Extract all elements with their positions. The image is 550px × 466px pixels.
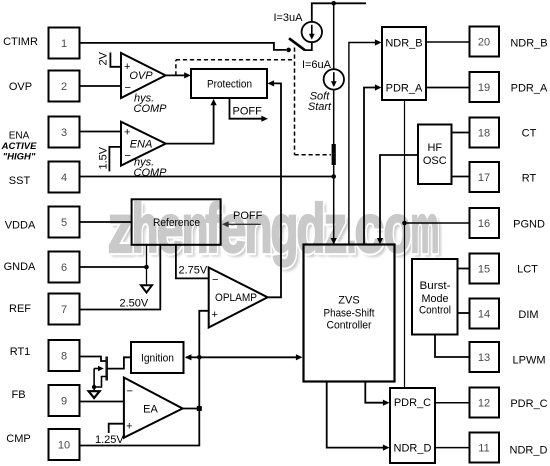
- node EA output junction: [197, 406, 202, 411]
- net label VDDA: [5, 220, 36, 232]
- svg-text:ENA: ENA: [9, 131, 30, 142]
- svg-text:VDDA: VDDA: [5, 220, 36, 232]
- transistor Q2 soft-start discharge bar: [332, 144, 336, 165]
- wire switch to current source I1: [305, 42, 312, 50]
- svg-text:11: 11: [478, 443, 489, 455]
- pin 2 number: [61, 81, 67, 93]
- svg-text:19: 19: [478, 82, 490, 94]
- wire Burst to pin13 LPWM: [435, 335, 470, 358]
- pin 7 box: [49, 294, 80, 325]
- svg-text:HF: HF: [427, 142, 442, 154]
- svg-text:PDR_A: PDR_A: [386, 82, 423, 94]
- wire EA output: [183, 408, 200, 410]
- svg-text:NDR_D: NDR_D: [394, 443, 432, 455]
- pin 20 box: [470, 27, 500, 57]
- svg-text:20: 20: [478, 37, 490, 49]
- svg-text:POFF: POFF: [233, 210, 263, 222]
- block Ignition: [131, 342, 184, 373]
- wire dashed OVP control: [176, 48, 331, 155]
- net label NDR_B right: [510, 38, 547, 50]
- wire HF OSC to pin18 CT: [452, 132, 470, 134]
- svg-text:Reference: Reference: [153, 217, 200, 229]
- svg-text:LPWM: LPWM: [513, 355, 546, 367]
- wire soft-start vertical into ZVS: [331, 90, 337, 245]
- current source I2 6uA: [324, 69, 344, 89]
- svg-text:13: 13: [478, 352, 490, 364]
- wire pin4 SST: [80, 176, 334, 178]
- block ZVS Phase-Shift Controller: [304, 245, 395, 382]
- wire ZVS to NDR_D input: [327, 382, 390, 451]
- svg-text:5: 5: [61, 217, 67, 229]
- pin 1 box: [49, 28, 80, 59]
- pin 1 number: [61, 38, 67, 50]
- svg-text:−: −: [125, 82, 131, 94]
- block Burst-Mode Control: [412, 259, 458, 335]
- svg-text:PGND: PGND: [513, 219, 545, 231]
- net label ENA: [9, 131, 30, 142]
- wire pin7 REF: [80, 245, 160, 310]
- svg-text:"HIGH": "HIGH": [3, 152, 36, 163]
- svg-text:e: e: [219, 190, 247, 267]
- wire ZVS to NDR_B input: [349, 39, 382, 244]
- pin 2 box: [49, 71, 80, 102]
- svg-text:DIM: DIM: [518, 309, 538, 321]
- reference 2V bracket: [98, 51, 122, 66]
- svg-text:9: 9: [61, 396, 67, 408]
- value label 2.75V: [179, 265, 208, 277]
- svg-text:Controller: Controller: [327, 320, 372, 332]
- svg-text:14: 14: [478, 309, 490, 321]
- svg-text:PDR_A: PDR_A: [511, 83, 548, 95]
- svg-text:12: 12: [478, 398, 490, 410]
- pin 11 number: [478, 443, 489, 455]
- label hys COMP for OVP: [134, 93, 168, 116]
- ground symbol transistor: [89, 387, 100, 398]
- block gate driver PDR_C NDR_D: [390, 388, 435, 463]
- net label SST: [9, 175, 31, 187]
- pin 20 number: [478, 37, 490, 49]
- svg-text:4: 4: [61, 172, 67, 184]
- pin 4 box: [49, 162, 80, 193]
- net label DIM: [518, 309, 538, 321]
- pin 16 number: [478, 218, 490, 230]
- wire pin3 ENA to comparator: [80, 131, 121, 133]
- pin 9 number: [61, 396, 67, 408]
- svg-text:Protection: Protection: [207, 78, 252, 90]
- svg-text:+: +: [124, 127, 130, 139]
- wire CMP node vertical: [80, 311, 209, 446]
- net label LPWM: [513, 355, 546, 367]
- wire driver to pin12: [435, 402, 470, 404]
- pin 5 number: [61, 217, 67, 229]
- svg-text:2: 2: [61, 81, 67, 93]
- net label PDR_A right: [511, 83, 548, 95]
- pin 17 number: [478, 172, 490, 184]
- svg-text:o: o: [384, 190, 412, 267]
- svg-text:1.25V: 1.25V: [95, 434, 124, 446]
- svg-text:−: −: [125, 150, 131, 162]
- svg-text:NDR_B: NDR_B: [510, 38, 547, 50]
- node GNDA junction: [144, 265, 149, 270]
- node transistor ground junction: [92, 385, 96, 389]
- pin 18 box: [470, 118, 500, 148]
- svg-text:NDR_D: NDR_D: [510, 445, 548, 457]
- node PGND junction: [402, 221, 407, 226]
- pin 17 box: [470, 162, 500, 192]
- svg-text:ENA: ENA: [130, 139, 153, 151]
- pin 13 box: [470, 342, 500, 372]
- net label CTIMR: [3, 36, 38, 48]
- op-amp comparator ENA: [121, 122, 166, 166]
- wire driver to pin11: [435, 447, 470, 449]
- wire pin8 RT1 to transistor: [80, 357, 106, 362]
- svg-text:SST: SST: [9, 175, 31, 187]
- transistor Q1: [94, 357, 107, 388]
- op-amp comparator OVP: [121, 53, 166, 98]
- pin 16 box: [470, 208, 500, 238]
- node ignition line junction: [197, 355, 202, 360]
- wire POFF output: [230, 98, 269, 122]
- svg-text:17: 17: [478, 172, 490, 184]
- pin 15 number: [478, 264, 490, 276]
- net label FB: [11, 389, 25, 401]
- net label RT: [522, 173, 537, 185]
- pin 9 box: [49, 385, 80, 416]
- label Soft Start: [308, 91, 332, 114]
- svg-text:FB: FB: [11, 389, 25, 401]
- svg-text:1: 1: [61, 38, 67, 50]
- svg-text:COMP: COMP: [134, 103, 168, 115]
- switch S1 blade: [289, 38, 305, 50]
- value label 2.50V: [120, 298, 149, 310]
- net label CT: [522, 128, 537, 140]
- svg-text:CTIMR: CTIMR: [3, 36, 38, 48]
- node top rail junction: [331, 1, 336, 6]
- svg-text:Phase-Shift: Phase-Shift: [324, 308, 375, 320]
- net label ACTIVE: [1, 141, 38, 152]
- svg-text:OSC: OSC: [423, 155, 447, 167]
- wire ZVS to PDR_C input: [365, 382, 389, 406]
- svg-text:z: z: [324, 190, 348, 267]
- op-amp EA: [124, 378, 183, 438]
- svg-text:RT1: RT1: [10, 346, 31, 358]
- svg-text:m: m: [410, 190, 439, 267]
- net label OVP: [9, 81, 32, 93]
- pin 10 box: [49, 429, 80, 460]
- wire Burst to pin14 DIM: [458, 312, 470, 314]
- svg-text:−: −: [212, 274, 218, 286]
- wire Ignition ZVS double arrow: [185, 354, 303, 360]
- wire driver bottom rail: [404, 100, 406, 388]
- svg-text:OVP: OVP: [9, 81, 32, 93]
- reference 1.25V bracket: [95, 424, 124, 446]
- pin 12 box: [470, 388, 500, 418]
- svg-text:z: z: [108, 190, 134, 267]
- wire OVP output to Protection: [166, 72, 191, 78]
- svg-text:1.5V: 1.5V: [98, 146, 110, 169]
- svg-text:d: d: [296, 190, 325, 267]
- svg-text:ZVS: ZVS: [338, 295, 359, 307]
- svg-text:8: 8: [61, 351, 67, 363]
- wire pin6 GNDA: [80, 245, 147, 285]
- svg-text:10: 10: [58, 440, 70, 452]
- block gate driver NDR_B PDR_A: [382, 27, 426, 100]
- block Protection: [191, 69, 267, 98]
- svg-text:−: −: [127, 386, 133, 398]
- pin 7 number: [61, 304, 67, 316]
- wire 2.75V reference to OPLAMP: [176, 245, 209, 279]
- svg-text:3: 3: [61, 127, 67, 139]
- svg-text:6: 6: [61, 262, 67, 274]
- op-amp OPLAMP: [209, 268, 268, 328]
- pin 8 number: [61, 351, 67, 363]
- wire HF OSC to pin17 RT: [452, 176, 470, 178]
- value label I=3uA: [273, 12, 303, 24]
- svg-text:18: 18: [478, 128, 490, 140]
- net label GNDA: [4, 261, 36, 273]
- svg-text:Control: Control: [419, 304, 451, 316]
- svg-text:n: n: [245, 190, 273, 267]
- svg-text:GNDA: GNDA: [4, 261, 36, 273]
- net label REF: [9, 303, 31, 315]
- wire pin2 OVP to comparator: [80, 85, 121, 87]
- wire pin5 VDDA to Reference: [80, 221, 132, 223]
- pin 3 box: [49, 117, 80, 148]
- pin 11 box: [470, 433, 500, 463]
- net label RT1: [10, 346, 31, 358]
- pin 12 number: [478, 398, 490, 410]
- net label LCT: [517, 264, 538, 276]
- wire HF OSC to ZVS: [377, 155, 418, 244]
- svg-text:Mode: Mode: [422, 293, 449, 305]
- svg-text:RT: RT: [522, 173, 537, 185]
- wire OPLAMP output to Protection: [268, 80, 282, 297]
- svg-text:7: 7: [61, 304, 67, 316]
- pin 5 box: [49, 207, 80, 238]
- svg-text:I=6uA: I=6uA: [302, 59, 332, 71]
- svg-text:Ignition: Ignition: [141, 353, 174, 365]
- pin 19 box: [470, 72, 500, 102]
- wire ENA output to Protection: [166, 99, 217, 144]
- wire driver to pin19: [426, 87, 470, 89]
- wire PGND to pin16: [405, 222, 470, 224]
- pin 14 box: [470, 299, 500, 329]
- net label POFF at Reference: [233, 210, 263, 222]
- wire pin9 FB to EA: [80, 401, 124, 403]
- svg-text:POFF: POFF: [233, 106, 263, 118]
- reference 1.5V bracket: [98, 146, 121, 171]
- pin 10 number: [58, 440, 70, 452]
- pin 8 box: [49, 340, 80, 371]
- pin 18 number: [478, 128, 490, 140]
- pin 3 number: [61, 127, 67, 139]
- wire Burst to pin15 LCT: [458, 268, 470, 270]
- svg-text:OVP: OVP: [129, 70, 153, 82]
- svg-text:LCT: LCT: [517, 264, 538, 276]
- pin 13 number: [478, 352, 490, 364]
- svg-text:+: +: [126, 421, 132, 433]
- net label POFF: [233, 106, 263, 118]
- block Reference: [132, 199, 221, 245]
- wire POFF into Reference: [222, 221, 261, 227]
- svg-text:Start: Start: [308, 101, 332, 113]
- svg-text:NDR_B: NDR_B: [385, 37, 422, 49]
- wire pin1 CTIMR to switch: [80, 43, 286, 50]
- svg-text:COMP: COMP: [134, 167, 168, 179]
- net label PGND: [513, 219, 545, 231]
- value label I=6uA: [302, 59, 332, 71]
- svg-text:REF: REF: [9, 303, 31, 315]
- node SST junction: [331, 174, 336, 179]
- svg-text:Burst-: Burst-: [420, 280, 451, 292]
- wire top rail: [312, 3, 366, 22]
- svg-text:ACTIVE: ACTIVE: [1, 141, 38, 152]
- svg-text:CMP: CMP: [6, 433, 30, 445]
- svg-text:PDR_C: PDR_C: [394, 397, 431, 409]
- svg-text:2V: 2V: [98, 51, 110, 65]
- net label PDR_C right: [510, 398, 547, 410]
- ground symbol analog: [141, 285, 152, 292]
- net label NDR_D right: [510, 445, 548, 457]
- wire driver to pin20: [426, 41, 470, 43]
- block HF OSC: [418, 125, 452, 185]
- wire rail to I2: [333, 3, 335, 69]
- svg-text:CT: CT: [522, 128, 537, 140]
- current source I1 3uA: [302, 22, 322, 42]
- svg-text:16: 16: [478, 218, 490, 230]
- pin 4 number: [61, 172, 67, 184]
- node switch contact: [286, 48, 291, 53]
- pin 6 number: [61, 262, 67, 274]
- pin 19 number: [478, 82, 490, 94]
- wire ZVS to PDR_A input: [364, 84, 382, 244]
- pin 6 box: [49, 252, 80, 283]
- svg-text:15: 15: [478, 264, 490, 276]
- pin 14 number: [478, 309, 490, 321]
- svg-text:EA: EA: [143, 404, 158, 416]
- svg-text:2.75V: 2.75V: [179, 265, 208, 277]
- svg-text:2.50V: 2.50V: [120, 298, 149, 310]
- svg-text:+: +: [212, 309, 218, 321]
- svg-text:OPLAMP: OPLAMP: [215, 292, 257, 304]
- wire transistor to Ignition: [107, 357, 131, 368]
- net label HIGH: [3, 152, 36, 163]
- svg-text:I=3uA: I=3uA: [273, 12, 303, 24]
- pin 15 box: [470, 254, 500, 284]
- svg-text:PDR_C: PDR_C: [510, 398, 547, 410]
- label hys COMP for ENA: [134, 157, 168, 180]
- svg-text:g: g: [271, 190, 299, 267]
- net label CMP: [6, 433, 30, 445]
